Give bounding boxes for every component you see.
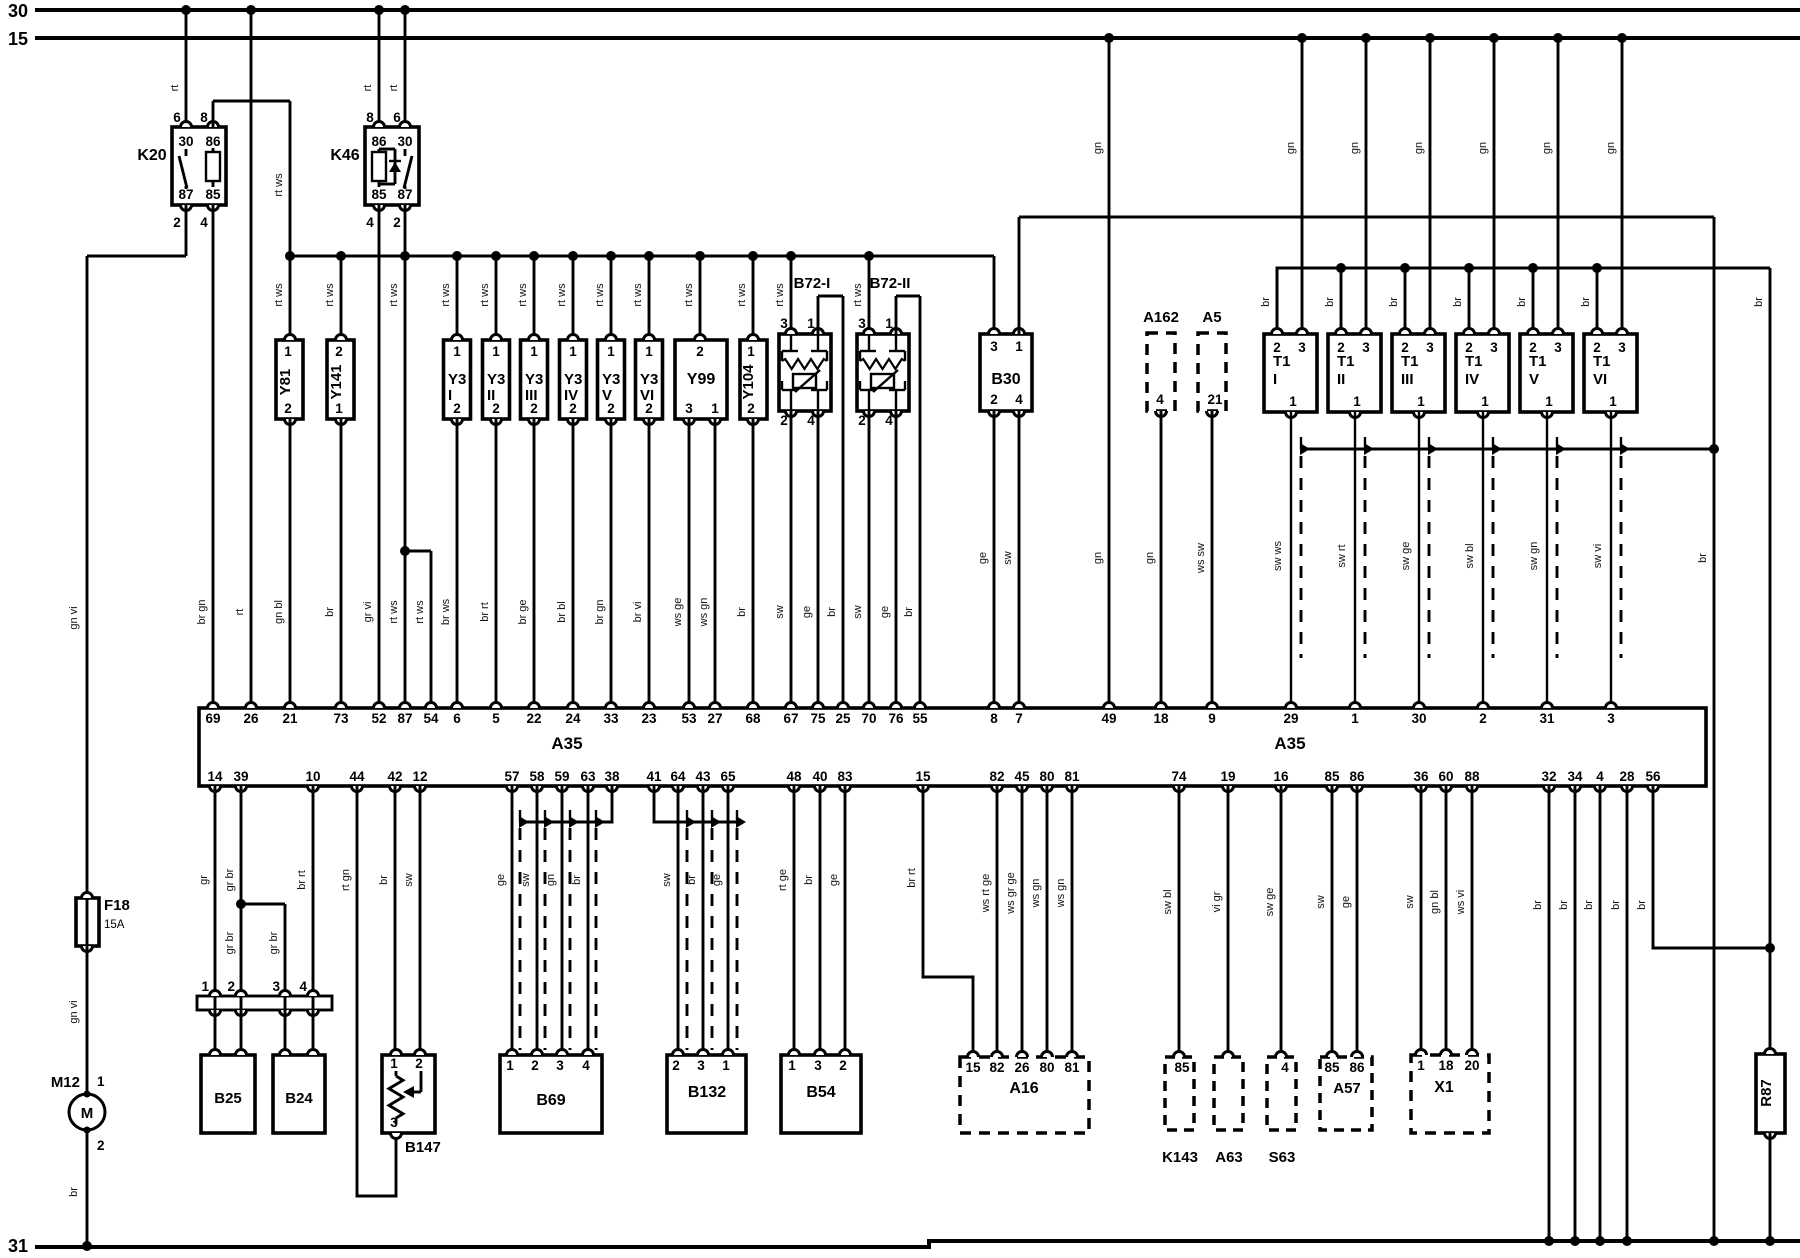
svg-text:V: V <box>1529 371 1539 388</box>
svg-text:br vi: br vi <box>632 602 644 623</box>
svg-text:1: 1 <box>1353 394 1361 409</box>
svg-text:ge: ge <box>879 606 891 618</box>
svg-text:54: 54 <box>423 711 439 726</box>
sensor B25 <box>201 1050 255 1134</box>
svg-text:6: 6 <box>173 110 181 125</box>
svg-text:sw bl: sw bl <box>1464 543 1476 568</box>
svg-text:56: 56 <box>1645 769 1661 784</box>
wire T1 I pin1 to A35 pin 29 <box>1272 412 1291 708</box>
wire Y3 II pin2 to A35 pin 5 <box>479 419 496 708</box>
svg-text:ge: ge <box>1340 896 1352 908</box>
svg-text:4: 4 <box>582 1058 590 1073</box>
svg-text:ws gn: ws gn <box>1055 879 1067 909</box>
svg-text:85: 85 <box>1324 769 1340 784</box>
wire A35 pin56 to R87 node <box>1636 786 1770 948</box>
wire A35 pin28 to bus 31 <box>1610 786 1632 1246</box>
svg-text:80: 80 <box>1039 1060 1054 1075</box>
wire A35 pin82 to A16 pin82 <box>980 786 997 1057</box>
wire A35 pin38 shield drain B69 <box>520 786 612 822</box>
wire A35 pin19 to A63 <box>1211 786 1228 1057</box>
svg-text:br: br <box>378 875 390 885</box>
svg-text:ws rt ge: ws rt ge <box>980 874 992 914</box>
svg-text:rt ws: rt ws <box>683 283 695 307</box>
ignition coil T1 I <box>1264 329 1317 418</box>
wire connector to B24 <box>285 996 313 1055</box>
svg-text:VI: VI <box>1593 371 1607 388</box>
svg-text:B25: B25 <box>214 1090 242 1107</box>
svg-text:69: 69 <box>205 711 220 726</box>
svg-text:20: 20 <box>1464 1058 1479 1073</box>
bus 15 <box>8 29 1800 49</box>
svg-text:73: 73 <box>333 711 349 726</box>
svg-text:63: 63 <box>580 769 596 784</box>
shield T1 I <box>1300 437 1310 658</box>
wire A35 pin63 to B69 pin4 <box>571 786 588 1055</box>
svg-text:A63: A63 <box>1215 1149 1243 1166</box>
svg-text:3: 3 <box>685 401 693 416</box>
svg-text:rt ws: rt ws <box>479 283 491 307</box>
wire bus15 to T1 III pin 3 <box>1413 33 1435 334</box>
wire A35 pin74 to K143 pin85 <box>1162 786 1179 1057</box>
control unit A57 <box>1320 1052 1372 1131</box>
svg-text:2: 2 <box>415 1056 423 1071</box>
svg-text:34: 34 <box>1567 769 1583 784</box>
svg-text:3: 3 <box>1362 340 1370 355</box>
wire Y141 pin1 to A35 pin 73 <box>324 419 341 708</box>
svg-text:sw: sw <box>403 873 415 887</box>
svg-text:br: br <box>803 875 815 885</box>
svg-text:2: 2 <box>173 215 181 230</box>
control unit A16 <box>960 1052 1089 1134</box>
svg-text:sw gn: sw gn <box>1528 542 1540 571</box>
svg-text:45: 45 <box>1014 769 1030 784</box>
svg-text:15: 15 <box>8 29 28 49</box>
wire A35 pin81 to A16 pin81 <box>1055 786 1072 1057</box>
wire A35 pin44 to B147 pin3 <box>340 786 396 1196</box>
svg-text:16: 16 <box>1273 769 1289 784</box>
svg-text:rt ws: rt ws <box>517 283 529 307</box>
wire K20 pin 85 to A35 pin 69 <box>196 205 213 708</box>
bus 30 <box>8 1 1800 21</box>
svg-text:B132: B132 <box>688 1084 726 1101</box>
svg-text:8: 8 <box>366 110 374 125</box>
svg-text:2: 2 <box>97 1138 105 1153</box>
wire bus30 to A35 pin 26 <box>234 5 256 708</box>
svg-text:R87: R87 <box>1758 1079 1775 1107</box>
svg-text:sw: sw <box>1002 551 1014 565</box>
svg-text:48: 48 <box>786 769 802 784</box>
wire bus15 to T1 V pin 3 <box>1541 33 1563 334</box>
svg-text:gn: gn <box>1285 142 1297 154</box>
wire rail to T1 II pin 2 <box>1324 263 1346 334</box>
svg-text:1: 1 <box>569 344 577 359</box>
wire A35 pin4 to bus 31 <box>1583 786 1605 1246</box>
ignition coil T1 V <box>1520 329 1573 418</box>
wire Y3 III pin2 to A35 pin 22 <box>517 419 534 708</box>
svg-text:br: br <box>686 875 698 885</box>
wire A35 pin59 to B69 pin3 <box>545 786 562 1055</box>
svg-text:br: br <box>1636 900 1648 910</box>
svg-text:Y104: Y104 <box>740 364 757 400</box>
svg-text:9: 9 <box>1208 711 1216 726</box>
svg-text:ws vi: ws vi <box>1455 890 1467 915</box>
svg-text:36: 36 <box>1413 769 1429 784</box>
wire rail to T1 V pin 2 <box>1516 263 1538 334</box>
svg-text:2: 2 <box>453 401 461 416</box>
svg-text:81: 81 <box>1064 769 1080 784</box>
sensor B69 <box>500 1050 602 1134</box>
wire B72-I pin2 to A35 pin 67 <box>774 411 791 708</box>
svg-text:2: 2 <box>284 401 292 416</box>
svg-text:2: 2 <box>696 344 704 359</box>
coil supply rail br <box>1277 268 1770 334</box>
wire bus15 to T1 VI pin 3 <box>1605 33 1627 334</box>
svg-text:3: 3 <box>1618 340 1626 355</box>
wire K20 pin 86 to node rtws <box>213 101 290 256</box>
svg-text:gn: gn <box>1092 142 1104 154</box>
svg-text:br: br <box>1610 900 1622 910</box>
svg-text:86: 86 <box>371 134 387 149</box>
svg-text:sw ge: sw ge <box>1264 888 1276 917</box>
shield T1 IV <box>1492 437 1502 658</box>
svg-text:br: br <box>903 607 915 617</box>
svg-text:70: 70 <box>861 711 876 726</box>
svg-text:br: br <box>1532 900 1544 910</box>
wire A35 pin14 to connector <box>198 786 215 996</box>
svg-text:2: 2 <box>531 1058 539 1073</box>
svg-text:15A: 15A <box>104 919 125 931</box>
wire rt-ws distribution rail <box>290 256 994 334</box>
resistor R87 <box>1756 948 1785 1139</box>
svg-text:br rt: br rt <box>296 870 308 890</box>
svg-text:Y3: Y3 <box>564 371 582 388</box>
svg-text:85: 85 <box>1324 1060 1340 1075</box>
svg-text:II: II <box>1337 371 1345 388</box>
svg-text:gn bl: gn bl <box>1429 890 1441 914</box>
wire Y99 pin1 to A35 pin 27 <box>698 419 715 708</box>
wire bus15 to T1 II pin 3 <box>1349 33 1371 334</box>
svg-text:ws gn: ws gn <box>1030 879 1042 909</box>
svg-text:M12: M12 <box>51 1074 80 1091</box>
svg-text:M: M <box>81 1105 94 1122</box>
svg-text:Y3: Y3 <box>448 371 466 388</box>
svg-text:rt ws: rt ws <box>324 283 336 307</box>
svg-text:38: 38 <box>604 769 620 784</box>
svg-text:28: 28 <box>1619 769 1635 784</box>
svg-text:2: 2 <box>839 1058 847 1073</box>
svg-text:76: 76 <box>888 711 904 726</box>
wire A5 pin21 to A35 pin 9 <box>1195 411 1212 708</box>
svg-text:ws gn: ws gn <box>698 598 710 628</box>
svg-text:br rt: br rt <box>479 602 491 622</box>
wire T1 VI pin1 to A35 pin 3 <box>1592 412 1611 708</box>
svg-text:br gn: br gn <box>196 599 208 624</box>
svg-text:30: 30 <box>8 1 28 21</box>
svg-text:gn vi: gn vi <box>68 606 80 629</box>
svg-text:8: 8 <box>200 110 208 125</box>
svg-text:ge: ge <box>711 874 723 886</box>
svg-text:4: 4 <box>885 413 893 428</box>
svg-text:sw: sw <box>774 605 786 619</box>
svg-text:12: 12 <box>412 769 427 784</box>
svg-text:1: 1 <box>747 344 755 359</box>
svg-text:1: 1 <box>201 979 209 994</box>
wire B30 pin4 to A35 pin 7 <box>1002 411 1019 708</box>
wire branch to A35 pin 54 <box>400 546 431 708</box>
svg-text:4: 4 <box>200 215 208 230</box>
svg-text:80: 80 <box>1039 769 1054 784</box>
svg-text:A57: A57 <box>1333 1080 1361 1097</box>
wire A35 pin83 to B54 pin2 <box>828 786 845 1055</box>
svg-text:F18: F18 <box>104 897 130 914</box>
svg-text:29: 29 <box>1283 711 1298 726</box>
svg-text:2: 2 <box>858 413 866 428</box>
svg-text:27: 27 <box>707 711 722 726</box>
svg-text:T1: T1 <box>1593 353 1611 370</box>
svg-text:B72-II: B72-II <box>870 275 911 292</box>
svg-text:rt ws: rt ws <box>852 283 864 307</box>
svg-text:rt: rt <box>169 85 181 92</box>
svg-text:gn: gn <box>1092 552 1104 564</box>
svg-text:sw bl: sw bl <box>1162 889 1174 914</box>
svg-text:Y3: Y3 <box>525 371 543 388</box>
svg-text:X1: X1 <box>1434 1079 1454 1096</box>
svg-text:4: 4 <box>1156 392 1164 407</box>
svg-text:1: 1 <box>1545 394 1553 409</box>
svg-text:rt ws: rt ws <box>414 600 426 624</box>
svg-text:br rt: br rt <box>906 868 918 888</box>
svg-text:1: 1 <box>335 401 343 416</box>
svg-text:7: 7 <box>1015 711 1023 726</box>
svg-text:52: 52 <box>371 711 386 726</box>
wire rail to T1 VI pin 2 <box>1580 263 1602 334</box>
svg-text:2: 2 <box>1479 711 1487 726</box>
svg-text:ws ge: ws ge <box>672 598 684 628</box>
wire Y104 pin2 to A35 pin 68 <box>736 419 753 708</box>
relay K46 <box>330 110 419 230</box>
svg-text:gr br: gr br <box>224 868 236 891</box>
svg-text:64: 64 <box>670 769 686 784</box>
connector strip <box>197 979 332 1016</box>
wire A35 pin60 to X1 pin18 <box>1429 786 1446 1055</box>
svg-text:rt ws: rt ws <box>273 283 285 307</box>
svg-text:B24: B24 <box>285 1090 313 1107</box>
shield T1 VI <box>1620 437 1630 658</box>
svg-text:gn: gn <box>1349 142 1361 154</box>
motor M12 <box>51 1074 105 1153</box>
wire A35 pin16 to S63 pin4 <box>1264 786 1281 1057</box>
svg-text:32: 32 <box>1541 769 1556 784</box>
wire A35 pin12 to B147 pin2 <box>403 786 420 1055</box>
svg-text:39: 39 <box>233 769 248 784</box>
control unit A5 <box>1198 309 1226 417</box>
injector Y3 I <box>440 251 471 425</box>
svg-text:br: br <box>1753 297 1765 307</box>
svg-text:br: br <box>1452 297 1464 307</box>
svg-text:Y3: Y3 <box>487 371 505 388</box>
wire branch to connector pin3 <box>241 904 285 996</box>
valve Y104 <box>736 251 767 425</box>
svg-text:87: 87 <box>397 711 412 726</box>
svg-text:2: 2 <box>227 979 235 994</box>
svg-text:br: br <box>1580 297 1592 307</box>
svg-text:rt: rt <box>362 85 374 92</box>
control unit A63 <box>1214 1052 1243 1167</box>
svg-text:42: 42 <box>387 769 402 784</box>
svg-text:3: 3 <box>272 979 280 994</box>
svg-text:rt: rt <box>234 609 246 616</box>
svg-text:1: 1 <box>284 344 292 359</box>
svg-text:1: 1 <box>645 344 653 359</box>
svg-text:br: br <box>1583 900 1595 910</box>
svg-text:49: 49 <box>1101 711 1116 726</box>
svg-text:ws gr ge: ws gr ge <box>1005 872 1017 915</box>
shield T1 III <box>1428 437 1438 658</box>
svg-text:2: 2 <box>780 413 788 428</box>
svg-text:4: 4 <box>299 979 307 994</box>
svg-text:rt gn: rt gn <box>340 869 352 891</box>
wire A35 pin64 to B132 pin2 <box>661 786 678 1055</box>
svg-text:br: br <box>1260 297 1272 307</box>
ignition coil T1 IV <box>1456 329 1509 418</box>
shield T1 II <box>1364 437 1374 658</box>
svg-text:41: 41 <box>646 769 662 784</box>
shield T1 V <box>1556 437 1566 658</box>
sensor B24 <box>273 1050 325 1134</box>
svg-text:sw ws: sw ws <box>1272 541 1284 571</box>
wire B72-II pin1 to A35 pin 55 <box>896 296 920 708</box>
svg-text:rt: rt <box>388 85 400 92</box>
svg-text:gr vi: gr vi <box>362 602 374 623</box>
svg-text:gn bl: gn bl <box>273 600 285 624</box>
svg-text:br: br <box>68 1187 80 1197</box>
node K46-87 / distribution <box>400 251 410 261</box>
svg-text:4: 4 <box>807 413 815 428</box>
svg-text:75: 75 <box>810 711 826 726</box>
svg-text:3: 3 <box>1426 340 1434 355</box>
svg-text:22: 22 <box>526 711 541 726</box>
svg-text:gr br: gr br <box>268 931 280 954</box>
wire A35 pin88 to X1 pin20 <box>1455 786 1472 1055</box>
svg-text:sw ge: sw ge <box>1400 542 1412 571</box>
wire rail to T1 I pin 2 <box>1260 268 1277 334</box>
svg-text:88: 88 <box>1464 769 1480 784</box>
svg-text:br: br <box>736 607 748 617</box>
wire Y3 IV pin2 to A35 pin 24 <box>556 419 573 708</box>
wire A35 pin42 to B147 pin1 <box>378 786 395 1055</box>
svg-text:vi gr: vi gr <box>1211 891 1223 912</box>
injector Y3 II <box>479 251 510 425</box>
svg-text:2: 2 <box>747 401 755 416</box>
svg-text:br: br <box>571 875 583 885</box>
svg-text:67: 67 <box>783 711 798 726</box>
svg-text:br ws: br ws <box>440 598 452 625</box>
wire B30 pin2 to A35 pin 8 <box>977 411 994 708</box>
sensor B72-I <box>774 251 831 428</box>
svg-text:sw: sw <box>661 873 673 887</box>
svg-text:gn: gn <box>1413 142 1425 154</box>
svg-text:26: 26 <box>1014 1060 1030 1075</box>
svg-text:1: 1 <box>1417 1058 1425 1073</box>
wire A162 pin4 to A35 pin 18 <box>1144 411 1161 708</box>
svg-text:3: 3 <box>556 1058 564 1073</box>
svg-text:4: 4 <box>1281 1060 1289 1075</box>
svg-text:30: 30 <box>178 134 193 149</box>
svg-text:82: 82 <box>989 1060 1004 1075</box>
svg-text:III: III <box>525 387 538 404</box>
svg-text:87: 87 <box>397 187 412 202</box>
wire A35 pin57 to B69 pin1 <box>495 786 512 1055</box>
svg-text:sw rt: sw rt <box>1336 544 1348 567</box>
svg-text:1: 1 <box>1609 394 1617 409</box>
svg-text:gn: gn <box>1541 142 1553 154</box>
svg-text:86: 86 <box>1349 1060 1365 1075</box>
svg-text:19: 19 <box>1220 769 1235 784</box>
svg-text:10: 10 <box>305 769 320 784</box>
wire A35 pin39 to connector <box>224 786 246 996</box>
valve Y81 <box>273 251 303 425</box>
shield collector rail <box>1301 444 1719 454</box>
wire B72-II pin2 to A35 pin 70 <box>852 411 869 708</box>
svg-text:15: 15 <box>965 1060 981 1075</box>
svg-text:59: 59 <box>554 769 569 784</box>
wire A35 pin85 to A57 pin85 <box>1315 786 1332 1057</box>
wire rail to T1 III pin 2 <box>1388 263 1410 334</box>
wire bus15 to A35 pin 49 <box>1092 33 1114 708</box>
wire rail end down to R87 node <box>1753 268 1770 948</box>
wire Y3 I pin2 to A35 pin 6 <box>440 419 457 708</box>
wire B72-I pin1 to A35 pin 25 <box>818 296 843 708</box>
svg-text:rt ws: rt ws <box>556 283 568 307</box>
svg-text:23: 23 <box>641 711 657 726</box>
wire connector to B25 <box>215 996 241 1055</box>
svg-text:sw: sw <box>1315 895 1327 909</box>
svg-text:gr br: gr br <box>224 931 236 954</box>
svg-text:33: 33 <box>603 711 619 726</box>
injector Y3 IV <box>556 251 587 425</box>
svg-text:1: 1 <box>97 1074 105 1089</box>
connector X1 <box>1411 1050 1489 1134</box>
wire A35 pin43 to B132 pin3 <box>686 786 703 1055</box>
sensor B147 potentiometer <box>382 1050 441 1157</box>
svg-text:30: 30 <box>1411 711 1426 726</box>
wire B72-I pin4 to A35 pin 75 <box>801 411 818 708</box>
svg-text:3: 3 <box>990 339 998 354</box>
svg-text:1: 1 <box>711 401 719 416</box>
svg-text:rt ws: rt ws <box>440 283 452 307</box>
svg-text:T1: T1 <box>1529 353 1547 370</box>
svg-text:rt ws: rt ws <box>736 283 748 307</box>
svg-text:1: 1 <box>1015 339 1023 354</box>
svg-text:ge: ge <box>801 606 813 618</box>
svg-text:ge: ge <box>828 874 840 886</box>
svg-text:1: 1 <box>722 1058 730 1073</box>
svg-text:3: 3 <box>1298 340 1306 355</box>
svg-text:A162: A162 <box>1143 309 1179 326</box>
svg-text:18: 18 <box>1438 1058 1454 1073</box>
svg-text:1: 1 <box>1351 711 1359 726</box>
svg-text:2: 2 <box>990 392 998 407</box>
wire A35 pin15 to A16 pin15 <box>906 786 973 1057</box>
svg-text:br gn: br gn <box>594 599 606 624</box>
wire K20 pin 87 to gn-vi feed <box>68 205 186 898</box>
ignition coil T1 II <box>1328 329 1381 418</box>
shield lines B132 <box>687 828 737 1050</box>
svg-text:60: 60 <box>1438 769 1453 784</box>
svg-text:III: III <box>1401 371 1414 388</box>
svg-text:3: 3 <box>1490 340 1498 355</box>
wire K46 pin 85 to A35 pin 52 <box>362 205 379 708</box>
